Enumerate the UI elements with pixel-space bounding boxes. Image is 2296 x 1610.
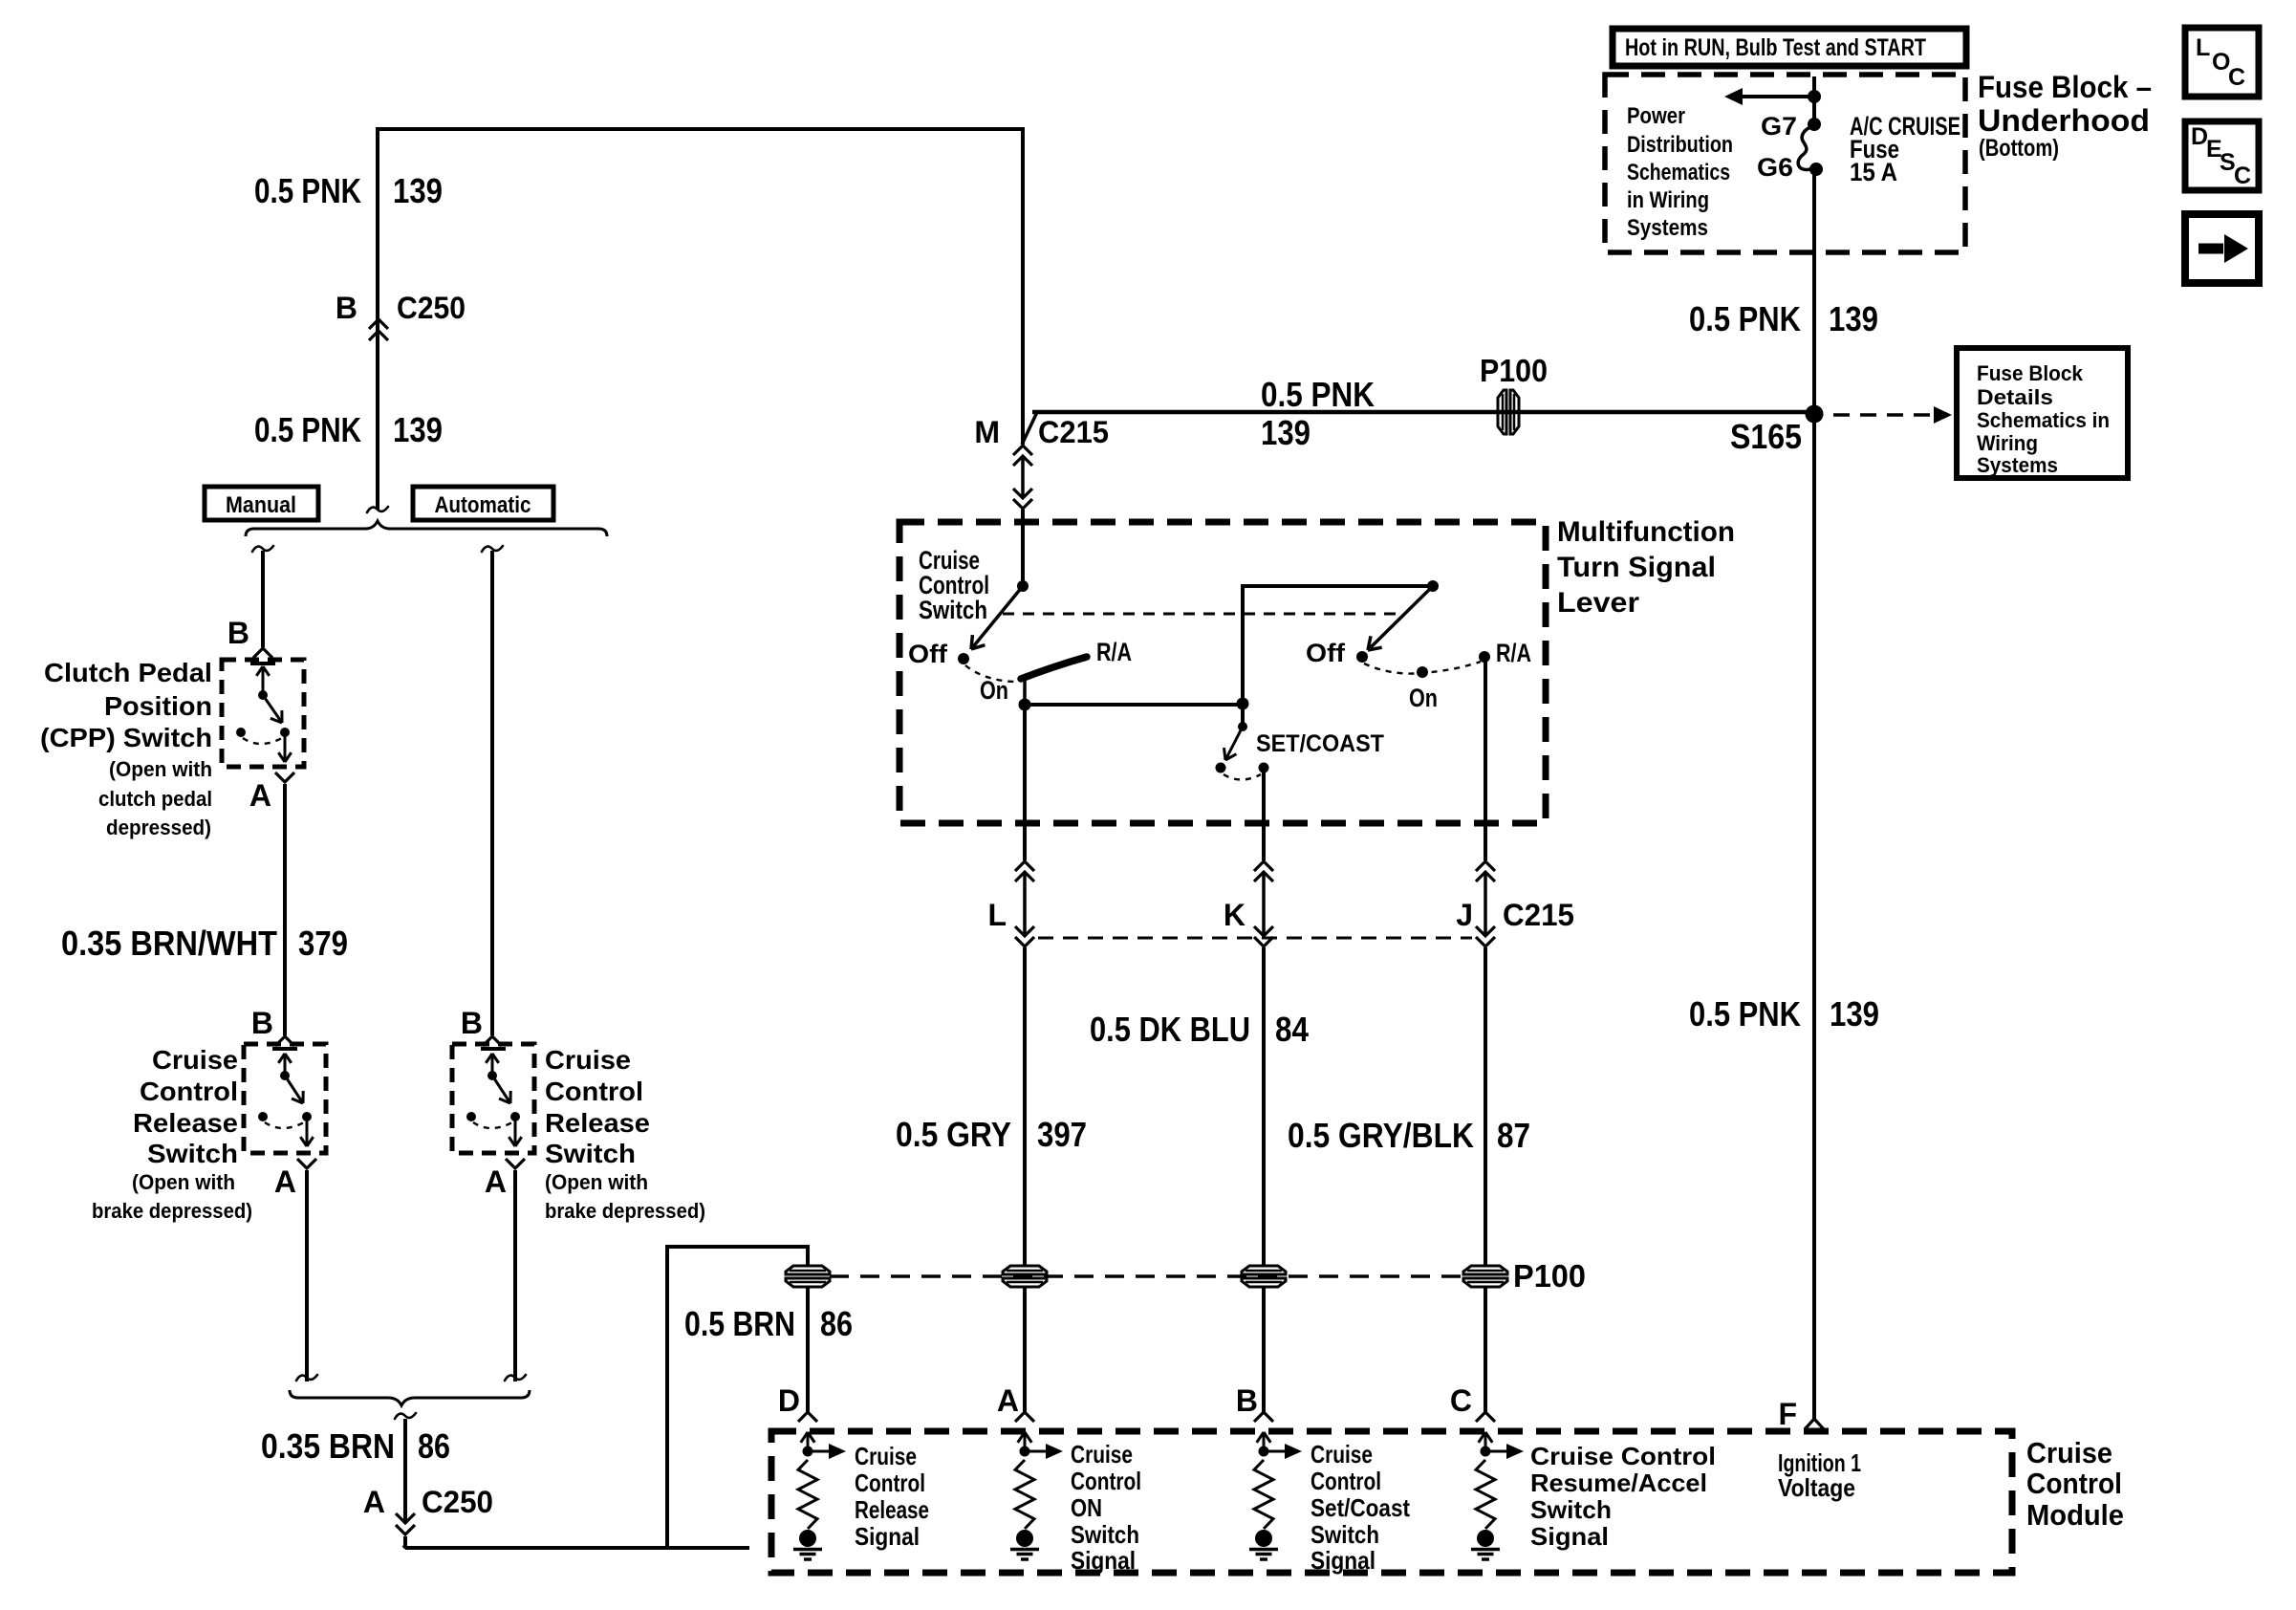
cruise switch 1 heavy contact arc [1021,657,1087,679]
dashed arrow S165 to fuse details [1833,413,1933,417]
A/C CRUISE fuse squiggle [1798,126,1815,170]
grommet P100 dashed line [830,1274,1463,1278]
wire tee up and across to switch 2 pivot [1243,586,1433,705]
svg-text:15 A: 15 A [1850,158,1897,186]
release switch 2 right contact dot [510,1112,520,1121]
svg-text:Off: Off [908,640,948,668]
module pin C input (arrow, resistor, ground) [1476,1412,1495,1422]
wire end curl above Manual/Automatic brace [367,507,388,512]
release switch 1 pin B chevron [275,1036,294,1046]
wire J drop from R/A contact [1484,659,1487,860]
CPP switch pin A chevron [275,772,294,782]
CPP switch left contact dot [236,728,246,737]
release switch 1 arm arrow [285,1076,303,1103]
grommet P100 on wire C [1463,1266,1507,1274]
svg-text:Cruise: Cruise [1071,1440,1133,1469]
svg-text:Cruise: Cruise [152,1045,238,1075]
Cruise Control Release Switch 1 dashed box [244,1044,326,1153]
svg-text:86: 86 [418,1426,450,1466]
svg-text:Cruise: Cruise [2026,1436,2112,1469]
svg-text:clutch pedal: clutch pedal [98,787,212,811]
wire vertical riser x698 (0.5 BRN) [665,1245,669,1548]
svg-text:Turn Signal: Turn Signal [1557,552,1716,583]
svg-text:C: C [1450,1383,1472,1418]
cruise switch 1 On stem [1023,679,1027,705]
release switch 2 pin A chevron [506,1159,525,1168]
svg-text:0.5 PNK: 0.5 PNK [254,410,361,449]
svg-text:0.5 PNK: 0.5 PNK [254,171,361,210]
svg-text:L: L [987,898,1007,932]
fuse terminal G6 dot [1809,163,1823,176]
svg-text:Release: Release [133,1108,238,1138]
wire 0.5 PNK 139 (S165 to module F) [1812,417,1816,1419]
release switch 2 dashed travel arc [473,1122,512,1128]
wire 0.5 GRY/BLK 87 (J to module C) [1484,947,1487,1266]
Clutch Pedal Position switch dashed box [222,660,304,767]
svg-text:C215: C215 [1503,898,1574,932]
svg-text:Signal: Signal [1530,1522,1609,1551]
cruise switch 1 pivot dot [1017,580,1029,592]
wire start curl below brace [395,1413,416,1419]
svg-text:R/A: R/A [1496,639,1531,667]
wire 0.5 DK BLU 84 (K to module B) [1262,947,1266,1266]
svg-text:397: 397 [1037,1115,1087,1154]
svg-text:0.5 GRY/BLK: 0.5 GRY/BLK [1288,1116,1474,1155]
svg-text:S165: S165 [1730,417,1802,456]
wire end curl release switch 1 bottom [296,1375,317,1381]
svg-text:Clutch Pedal: Clutch Pedal [44,658,212,687]
svg-text:A: A [485,1164,507,1199]
wire 0.5 PNK 139 horizontal to S165 [1032,410,1814,415]
cruise switch 2 arm arrow [1368,586,1433,650]
set/coast left contact dot [1216,763,1226,773]
cruise switch 1 dashed arc Off-On [965,665,1015,682]
DESC box [2185,121,2259,190]
cruise switch 2 Off contact dot [1356,651,1368,663]
cruise switch 2 pivot dot [1427,580,1439,592]
svg-text:Voltage: Voltage [1778,1473,1855,1502]
svg-text:Systems: Systems [1977,453,2058,477]
set/coast pivot dot [1238,722,1247,731]
svg-text:Cruise: Cruise [855,1442,917,1470]
svg-text:Control: Control [855,1469,925,1497]
svg-text:A: A [249,778,271,813]
Hot in RUN title box [1613,29,1966,66]
svg-text:Details: Details [1977,385,2053,409]
svg-text:C250: C250 [422,1485,493,1519]
svg-text:0.5 PNK: 0.5 PNK [1261,375,1375,414]
svg-text:Systems: Systems [1627,215,1708,241]
wire release switch 1 A down to brace [305,1170,309,1382]
connector C215 dashed line [1038,937,1472,940]
svg-text:Switch: Switch [1530,1495,1612,1524]
svg-text:0.35 BRN/WHT: 0.35 BRN/WHT [61,924,277,963]
wire bottom horizontal run to module [405,1546,749,1550]
junction dot above fuse [1808,90,1821,103]
connector C215 chevrons pin K [1254,861,1273,871]
svg-text:P100: P100 [1480,353,1548,388]
CPP switch dashed travel arc [243,738,282,744]
svg-text:Schematics: Schematics [1627,160,1730,185]
svg-text:brake depressed): brake depressed) [545,1199,705,1223]
svg-text:A: A [363,1485,385,1519]
cruise switch 2 R/A contact dot [1479,651,1490,663]
svg-text:depressed): depressed) [106,816,211,839]
wire horizontal 0.5 BRN to pin D drop [665,1245,808,1249]
release switch 1 pivot dot [280,1071,290,1080]
junction dot set/coast tee [1237,698,1249,710]
svg-text:Control: Control [2026,1467,2122,1500]
svg-text:0.5 PNK: 0.5 PNK [1689,299,1801,338]
svg-text:Control: Control [1071,1467,1141,1495]
svg-text:C215: C215 [1038,415,1109,449]
svg-text:0.5 GRY: 0.5 GRY [896,1115,1011,1154]
connector C250 chevrons (bottom) [396,1513,415,1523]
connector C215 chevrons pin J [1476,861,1495,871]
set/coast wire from tee down [1241,705,1245,727]
svg-text:139: 139 [393,171,443,210]
wire release switch 2 A down to brace [513,1170,517,1382]
svg-text:ON: ON [1071,1493,1102,1522]
release switch 1 left contact dot [258,1112,268,1121]
svg-text:379: 379 [298,924,348,963]
release switch 2 left contact dot [466,1112,476,1121]
arrow box arrow [2199,244,2223,254]
wire C215 M into turn signal lever box [1021,510,1025,586]
svg-text:G6: G6 [1757,153,1793,182]
svg-text:B: B [227,616,249,650]
wire J grommet to module pin C [1484,1287,1487,1412]
release switch 1 pin A chevron [297,1159,316,1168]
Fuse Block Underhood dashed box [1605,75,1965,252]
svg-text:139: 139 [393,410,443,449]
wire 0.5 GRY 397 (L to module A) [1023,947,1027,1266]
svg-text:Set/Coast: Set/Coast [1310,1493,1410,1522]
wire L drop from On contact [1023,705,1027,860]
cruise switch 2 On contact dot [1417,666,1428,678]
svg-text:Position: Position [104,691,212,721]
wire On contact to set/coast junction [1025,703,1243,707]
svg-text:84: 84 [1275,1010,1309,1049]
svg-text:B: B [1236,1383,1258,1418]
fuse terminal G7 dot [1808,118,1821,131]
wire 0.5 PNK 139 vertical (C250 B to splice corner) [376,127,379,510]
module pin A input (arrow, resistor, ground) [1015,1412,1034,1422]
release switch 1 moving contact arrow [284,1054,287,1076]
svg-text:G7: G7 [1761,112,1797,141]
wire K drop from set/coast contact [1262,770,1266,860]
svg-text:Schematics in: Schematics in [1977,408,2110,432]
svg-text:0.5 DK BLU: 0.5 DK BLU [1090,1010,1250,1049]
wire Automatic branch down to release switch 2 B [490,551,494,1035]
mechanical link dashed line [1003,613,1397,616]
svg-text:in Wiring: in Wiring [1627,187,1709,213]
wire from C250 A to bottom corner [403,1536,407,1546]
svg-text:B: B [336,291,357,325]
svg-text:Switch: Switch [147,1139,238,1168]
svg-text:Lever: Lever [1557,587,1639,619]
release switch 2 moving contact arrow [491,1054,494,1076]
wire fuse G6 down to S165 [1812,171,1816,415]
set/coast right contact dot [1259,763,1269,773]
svg-text:J: J [1456,898,1473,932]
wire into fuse block from top [1812,76,1816,124]
cruise switch 1 Off contact dot [958,653,969,664]
svg-text:C: C [2234,163,2251,189]
svg-text:Automatic: Automatic [435,492,531,518]
set/coast dashed travel arc [1224,774,1261,780]
svg-text:L: L [2196,34,2210,61]
svg-text:Signal: Signal [855,1522,920,1551]
CPP switch pin B chevron [253,648,272,658]
svg-text:Signal: Signal [1310,1546,1375,1575]
wire Manual branch down to CPP switch B [261,551,265,647]
svg-text:Control: Control [1310,1467,1381,1495]
CPP switch pivot dot [258,690,268,700]
svg-text:Switch: Switch [1071,1520,1139,1549]
Cruise Control Module dashed box [771,1431,2012,1573]
svg-text:Fuse Block: Fuse Block [1977,361,2084,385]
svg-text:(Open with: (Open with [545,1170,648,1194]
svg-text:Manual: Manual [226,492,296,518]
svg-text:0.35 BRN: 0.35 BRN [261,1426,395,1466]
svg-text:M: M [974,415,1000,449]
release switch 1 dashed travel arc [265,1122,304,1128]
Automatic branch wire start curl [482,546,503,552]
wire pin D drop vertical upper [806,1245,810,1266]
wire segment right vertical down to C215 M [1021,127,1025,445]
wire pin D drop vertical lower [806,1287,810,1412]
arrow box [2185,214,2259,283]
svg-text:87: 87 [1497,1116,1530,1155]
CPP switch output arrow (down) [284,732,287,762]
module pin F chevron [1805,1419,1824,1429]
svg-text:C: C [2228,64,2245,91]
wire K grommet to module pin B [1262,1287,1266,1412]
brace joining release switch outputs [290,1390,530,1405]
wire 0.35 BRN 86 down to C250 A [403,1419,407,1522]
release switch 2 pivot dot [487,1071,497,1080]
svg-text:K: K [1224,898,1245,932]
brace selecting Manual/Automatic branches [246,521,607,536]
CPP switch right contact dot [280,728,290,737]
splice S165 dot [1806,405,1824,424]
svg-text:Release: Release [545,1108,650,1138]
wire segment top horizontal 0.5 PNK 139 [376,127,1025,131]
svg-text:Control: Control [545,1077,643,1106]
LOC box [2185,28,2259,97]
grommet P100 on wire A [1003,1266,1047,1274]
Manual box [205,487,318,520]
grommet P100 on wire B [1242,1266,1286,1274]
Automatic box [413,487,553,520]
svg-text:139: 139 [1261,413,1310,452]
grommet P100 on pin D wire [786,1266,830,1274]
set/coast arm arrow [1225,727,1243,760]
svg-text:On: On [1409,684,1438,712]
connector C215 M chevrons [1013,446,1032,455]
svg-text:Cruise: Cruise [545,1045,631,1075]
svg-text:139: 139 [1829,299,1878,338]
svg-text:SET/COAST: SET/COAST [1256,730,1384,757]
svg-text:(CPP) Switch: (CPP) Switch [40,723,212,752]
svg-text:0.5 BRN: 0.5 BRN [684,1304,795,1343]
svg-text:B: B [461,1006,483,1040]
connector C250 chevrons (top) [369,319,388,329]
release switch 2 fixed contact bar [481,1047,506,1051]
module pin B input (arrow, resistor, ground) [1254,1412,1273,1422]
svg-text:(Bottom): (Bottom) [1979,135,2059,162]
svg-text:B: B [251,1006,273,1040]
svg-text:139: 139 [1830,994,1879,1033]
cruise switch 1 arm arrow [971,586,1023,649]
svg-text:Cruise Control: Cruise Control [1530,1442,1716,1470]
svg-text:Off: Off [1306,639,1346,667]
svg-text:Fuse Block –: Fuse Block – [1978,70,2152,104]
svg-text:86: 86 [820,1304,853,1343]
svg-text:Module: Module [2026,1498,2124,1532]
release switch 1 right contact dot [302,1112,312,1121]
release switch 2 pin B chevron [483,1036,502,1046]
svg-text:Wiring: Wiring [1977,431,2038,455]
connector C215 chevrons pin L [1015,861,1034,871]
CPP switch arm arrow [263,695,282,723]
svg-text:Switch: Switch [1310,1520,1379,1549]
Fuse Block Details box [1957,348,2128,478]
release switch 2 output arrow (down) [514,1117,517,1146]
svg-text:Signal: Signal [1071,1546,1136,1575]
svg-text:Power: Power [1627,103,1685,129]
svg-text:Multifunction: Multifunction [1557,516,1735,548]
svg-text:F: F [1778,1397,1797,1431]
arrow to power distribution [1742,95,1814,98]
wire 0.35 BRN/WHT 379 (CPP A to release switch B) [283,784,287,1035]
module pin D input (arrow, resistor, ground) [798,1412,817,1422]
release switch 2 arm arrow [492,1076,510,1103]
svg-text:Resume/Accel: Resume/Accel [1530,1469,1707,1497]
wire end curl release switch 2 bottom [505,1375,526,1381]
CPP switch moving contact arrow (up) [262,666,265,695]
svg-text:On: On [980,676,1008,705]
svg-text:C250: C250 [397,291,466,325]
svg-text:P100: P100 [1513,1258,1586,1294]
svg-text:(Open with: (Open with [132,1170,235,1194]
Cruise Control Release Switch 2 dashed box [452,1044,534,1153]
svg-text:D: D [778,1383,800,1418]
Manual branch wire start curl [252,546,273,552]
svg-text:Release: Release [855,1495,929,1524]
svg-text:Hot in RUN, Bulb Test and STAR: Hot in RUN, Bulb Test and START [1625,34,1926,61]
svg-text:brake depressed): brake depressed) [92,1199,252,1223]
svg-text:Switch: Switch [545,1139,636,1168]
svg-text:Underhood: Underhood [1978,103,2150,138]
svg-text:(Open with: (Open with [109,757,212,781]
svg-text:A: A [997,1383,1019,1418]
grommet P100 on horizontal wire [1498,390,1506,434]
Multifunction Turn Signal Lever dashed box [899,522,1546,823]
wire L grommet to module pin A [1023,1287,1027,1412]
svg-text:A: A [274,1164,296,1199]
junction dot at On contact [1019,699,1031,711]
svg-text:Switch: Switch [919,596,987,624]
svg-text:Control: Control [140,1077,238,1106]
svg-text:0.5 PNK: 0.5 PNK [1689,994,1801,1033]
cruise switch 2 dashed arc [1364,662,1481,674]
release switch 1 fixed contact bar [272,1047,297,1051]
svg-text:Cruise: Cruise [1310,1440,1373,1469]
svg-text:Distribution: Distribution [1627,132,1733,158]
svg-text:R/A: R/A [1096,638,1132,666]
release switch 1 output arrow (down) [306,1117,309,1146]
connector C215 breakout slash [1022,412,1037,445]
CPP switch fixed contact bar [250,662,275,665]
